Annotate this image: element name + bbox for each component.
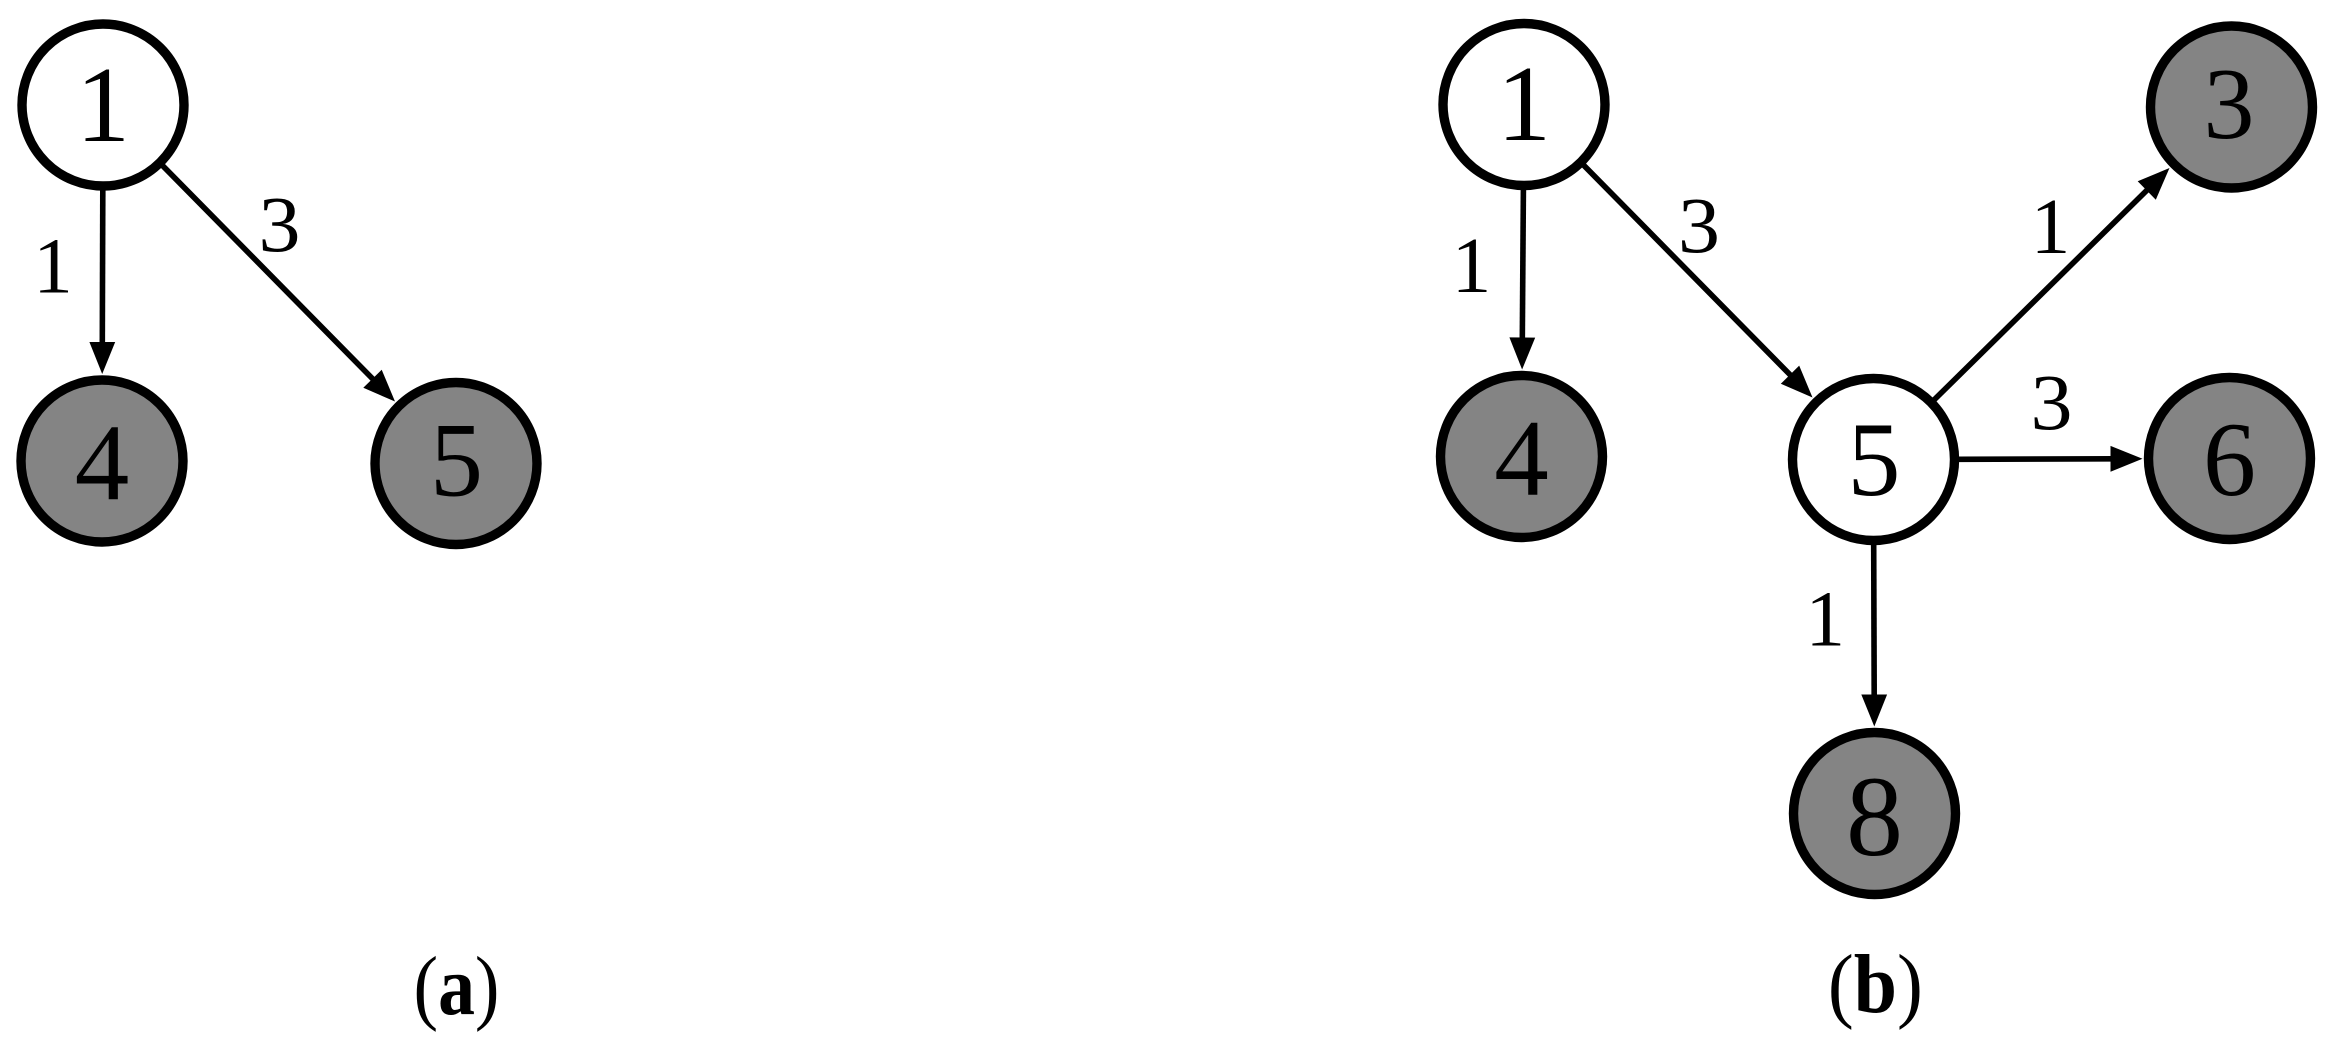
svg-text:1: 1	[1806, 577, 1846, 664]
svg-text:6: 6	[2203, 401, 2256, 518]
svg-text:(a): (a)	[413, 941, 499, 1033]
node 1 (b), white	[1443, 24, 1605, 186]
svg-text:(b): (b)	[1828, 937, 1923, 1030]
svg-text:3: 3	[259, 182, 301, 269]
svg-text:1: 1	[1497, 45, 1551, 164]
node 4 (a), gray	[21, 380, 183, 542]
node 4 (b), gray	[1441, 376, 1603, 538]
wire: edge 5->6 (b)	[1959, 446, 2143, 472]
node 5 (b), white	[1793, 379, 1955, 541]
wire: edge 5->3 (b)	[1934, 168, 2169, 400]
svg-text:8: 8	[1846, 753, 1903, 880]
svg-text:1: 1	[76, 46, 130, 165]
svg-text:1: 1	[1452, 223, 1492, 310]
wire: edge 5->8 (b)	[1861, 545, 1887, 727]
node 1 (a), white	[22, 24, 184, 186]
wire: edge 1->4 (b)	[1509, 190, 1535, 370]
wire: edge 1->5 (a)	[163, 166, 395, 402]
svg-text:3: 3	[1678, 183, 1720, 270]
svg-text:1: 1	[2031, 184, 2071, 271]
svg-text:5: 5	[1848, 401, 1901, 518]
node 3 (b), gray	[2151, 26, 2313, 188]
wire: edge 1->5 (b)	[1584, 165, 1813, 397]
node 8 (b), gray	[1794, 733, 1956, 895]
svg-text:5: 5	[430, 402, 483, 519]
svg-text:1: 1	[33, 224, 73, 311]
svg-text:4: 4	[75, 402, 130, 523]
node 5 (a), gray	[375, 383, 537, 545]
svg-text:4: 4	[1494, 398, 1549, 519]
wire: edge 1->4 (a)	[89, 190, 115, 374]
svg-text:3: 3	[2204, 48, 2255, 161]
node 6 (b), gray	[2149, 378, 2311, 540]
svg-text:3: 3	[2031, 360, 2073, 447]
